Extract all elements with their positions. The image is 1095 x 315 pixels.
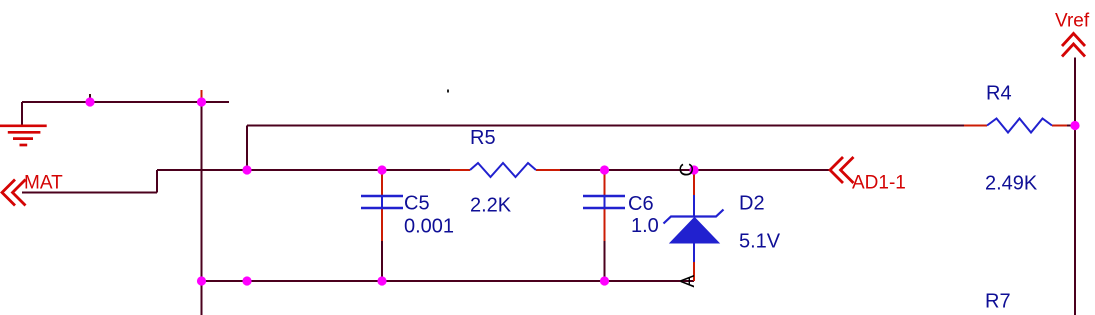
junction dot (382,281) xyxy=(377,276,386,285)
wire stub above node at x=90 xyxy=(89,94,91,102)
svg-text:AD1-1: AD1-1 xyxy=(852,173,906,194)
wire C6 lower vertical xyxy=(604,240,606,281)
stray dot xyxy=(447,90,449,93)
junction dot (90,102) xyxy=(85,97,94,106)
junction dot (247,281) xyxy=(242,276,251,285)
wire node row y=170 left of R5 xyxy=(157,169,452,171)
svg-text:R4: R4 xyxy=(986,83,1012,105)
pin C5 bottom xyxy=(381,208,383,241)
wire vertical main left bus x=201.5 xyxy=(201,102,203,315)
svg-text:2.2K: 2.2K xyxy=(470,195,512,217)
port MAT chevrons xyxy=(2,180,26,206)
power symbol Vref chevrons xyxy=(1062,34,1085,57)
port AD1-1 chevrons xyxy=(830,157,854,183)
pin C6 bottom xyxy=(604,208,606,241)
resistor R4 xyxy=(987,119,1052,133)
capacitor C5 xyxy=(361,196,403,208)
junction dot (201.5,102) xyxy=(197,97,206,106)
wire riser x=247 xyxy=(246,126,248,171)
svg-text:A: A xyxy=(678,275,699,288)
svg-text:R5: R5 xyxy=(470,127,496,149)
wire MAT horizontal xyxy=(22,192,157,194)
junction dot (694,170) xyxy=(689,165,698,174)
ground xyxy=(0,126,47,145)
pin D2 anode bottom xyxy=(693,261,695,281)
pin stub red above x=201.5 xyxy=(201,90,203,103)
junction dot (201.5,281) xyxy=(197,276,206,285)
wire ground horizontal top-left xyxy=(22,101,229,103)
junction dot (604.5,281) xyxy=(600,276,609,285)
junction dot (1075,125.5) xyxy=(1070,121,1079,130)
svg-text:C: C xyxy=(677,163,698,177)
wire C5 lower vertical xyxy=(381,240,383,281)
capacitor C6 xyxy=(583,196,625,208)
svg-text:2.49K: 2.49K xyxy=(985,173,1038,195)
svg-text:1.0: 1.0 xyxy=(631,215,659,237)
junction dot (382,170) xyxy=(377,165,386,174)
svg-text:C5: C5 xyxy=(404,193,430,215)
junction dot (247,170) xyxy=(242,165,251,174)
pin D2 cathode top xyxy=(693,170,695,196)
wire MAT step vertical xyxy=(156,170,158,193)
wire vertical right bus x=1075 xyxy=(1074,58,1076,315)
wire node row y=170 right of R5 xyxy=(558,169,830,171)
svg-text:MAT: MAT xyxy=(24,173,63,194)
wire long top row y=125.5 xyxy=(247,125,966,127)
wire bottom rail y=281 xyxy=(202,280,695,282)
svg-text:0.001: 0.001 xyxy=(404,216,454,238)
pin R5 right xyxy=(536,169,560,171)
pin C6 top xyxy=(604,170,606,196)
svg-text:Vref: Vref xyxy=(1055,11,1090,32)
svg-text:5.1V: 5.1V xyxy=(739,231,781,253)
wire R4 right to junction xyxy=(1066,125,1075,127)
junction dot (604.5,170) xyxy=(600,165,609,174)
pin R4 right xyxy=(1052,125,1067,127)
pin C5 top xyxy=(381,170,383,196)
pin R4 left xyxy=(964,125,987,127)
svg-text:D2: D2 xyxy=(739,193,765,215)
zener diode D2 xyxy=(664,195,724,262)
wire ground vertical drop xyxy=(21,102,23,126)
svg-text:R7: R7 xyxy=(985,291,1011,313)
svg-text:C6: C6 xyxy=(628,193,654,215)
resistor R5 xyxy=(470,163,536,177)
pin R5 left xyxy=(450,169,470,171)
